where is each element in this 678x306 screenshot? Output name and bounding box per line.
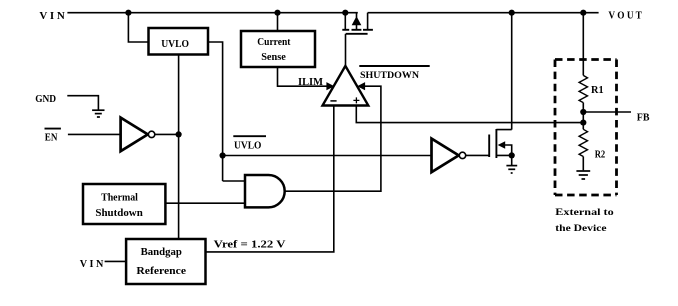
resistor R2: [579, 129, 587, 156]
wire comparator output to Q1 gate: [345, 34, 347, 66]
wire VOUT to R1: [582, 13, 584, 76]
svg-text:V O U T: V O U T: [608, 11, 642, 22]
svg-text:Vref = 1.22 V: Vref = 1.22 V: [214, 240, 286, 251]
wire Q2 body to source: [505, 145, 512, 155]
wire AND output to SHUTDOWN arrow: [285, 86, 381, 191]
wire Current Sense to ILIM: [278, 67, 328, 86]
svg-text:V I N: V I N: [80, 259, 104, 270]
svg-text:ILIM: ILIM: [298, 77, 323, 88]
svg-text:Reference: Reference: [136, 266, 186, 277]
arrow SHUTDOWN into comparator: [357, 82, 365, 90]
node UVLO junction: [220, 152, 226, 158]
node EN inverter output: [176, 131, 182, 137]
wire Q2 drain to VOUT rail: [496, 13, 511, 130]
inverter U3 (gate driver): [432, 139, 466, 173]
inverter U2 (EN buffer): [121, 118, 155, 152]
wire VOUT top rail right: [368, 12, 599, 14]
arrow ILIM into comparator: [326, 82, 334, 90]
wire R1 to R2 node: [582, 103, 584, 130]
box Thermal Shutdown: [83, 184, 165, 224]
svg-text:Current: Current: [257, 37, 291, 48]
svg-text:SHUTDOWN: SHUTDOWN: [360, 71, 419, 81]
gate AND U4: [245, 175, 285, 207]
ground R2: [576, 171, 590, 179]
svg-text:R2: R2: [595, 150, 606, 161]
node FB lower junction: [580, 120, 586, 126]
wire FB output: [583, 111, 631, 113]
svg-text:Shutdown: Shutdown: [95, 208, 143, 219]
wire EN inverter output: [155, 133, 179, 135]
transistor Q2 discharge NMOS: [489, 129, 505, 158]
box dashed external: [555, 60, 617, 196]
node Q1 source: [342, 10, 348, 16]
svg-text:the Device: the Device: [555, 223, 607, 234]
wire UVLO right to junction: [208, 42, 223, 181]
node VIN junction: [125, 10, 131, 16]
svg-text:GND: GND: [35, 94, 56, 105]
svg-text:External to: External to: [555, 207, 614, 218]
wire Thermal Shutdown to AND input 2: [165, 202, 245, 204]
op-amp U5 current limit comparator: [323, 66, 369, 106]
svg-text:V I N: V I N: [39, 11, 65, 22]
wire Vref from Bandgap to comparator minus: [206, 106, 334, 252]
wire GND lead: [67, 96, 98, 110]
node Current Sense tap: [274, 10, 280, 16]
node FB upper junction: [580, 109, 586, 115]
label minus input: [330, 100, 336, 102]
wire UVLO signal to inverter U3: [223, 155, 432, 157]
wire Q2 source stub: [496, 155, 511, 165]
wire R2 to ground: [582, 157, 584, 171]
node Q2 drain tap: [509, 10, 515, 16]
box Current Sense: [241, 31, 315, 67]
resistor R1: [579, 75, 587, 102]
wire junction to AND input 1: [223, 180, 245, 182]
ground GND pin: [92, 110, 104, 117]
wire UVLO bottom to Bandgap: [178, 55, 180, 240]
label plus input: [353, 97, 359, 103]
node VOUT junction: [580, 10, 586, 16]
svg-text:Bandgap: Bandgap: [141, 247, 183, 258]
wire VIN drop to UVLO: [128, 13, 148, 42]
svg-text:UVLO: UVLO: [161, 39, 189, 50]
transistor Q1 pass PMOS: [342, 13, 373, 34]
svg-text:Thermal: Thermal: [101, 192, 138, 203]
wire VIN top rail left: [67, 12, 357, 14]
wire EN input: [68, 133, 121, 135]
ground Q2 source: [506, 166, 517, 173]
svg-text:FB: FB: [637, 112, 650, 123]
svg-text:EN: EN: [45, 132, 58, 143]
wire VIN to Bandgap: [105, 260, 127, 262]
svg-text:R1: R1: [591, 85, 604, 96]
wire inverter U3 output to Q2 gate: [466, 154, 489, 156]
box UVLO U1: [149, 28, 209, 55]
node Q2 source-body junction: [509, 152, 515, 158]
svg-text:UVLO: UVLO: [234, 140, 261, 151]
wire Current Sense top: [277, 13, 279, 31]
wire FB to comparator plus: [356, 106, 583, 123]
box Bandgap Reference: [126, 239, 205, 284]
svg-text:Sense: Sense: [261, 52, 286, 63]
